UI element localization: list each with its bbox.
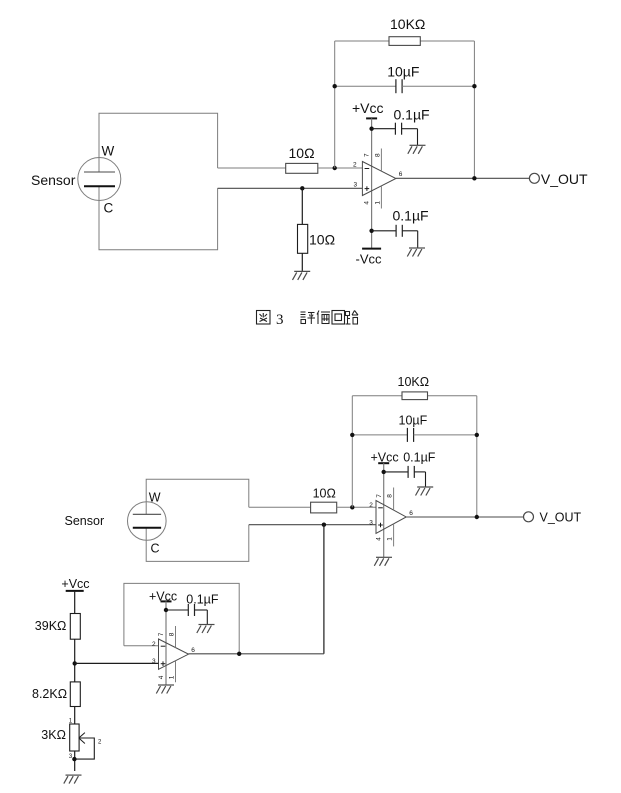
svg-text:1: 1 bbox=[387, 537, 394, 541]
output wire U3 to bias riser bbox=[189, 653, 324, 655]
svg-text:8.2KΩ: 8.2KΩ bbox=[32, 687, 67, 701]
svg-text:2: 2 bbox=[152, 641, 156, 648]
feedback right vertical (bottom ckt) bbox=[476, 396, 478, 517]
wire C1 to right vertical bbox=[402, 85, 474, 87]
svg-text:7: 7 bbox=[376, 494, 383, 498]
capacitor C4 10µF bbox=[407, 428, 413, 442]
capacitor C5 0.1µF bbox=[408, 466, 414, 478]
op-amp U2 triangle bbox=[376, 501, 406, 534]
output wire U1 to V_OUT bbox=[396, 177, 529, 179]
ground below U2 bbox=[374, 557, 392, 566]
svg-text:W: W bbox=[149, 491, 161, 505]
resistor R1 10Ω (horizontal) bbox=[286, 163, 318, 173]
V+ rail through U2 to ground bbox=[383, 463, 385, 557]
junction C4 left bbox=[350, 433, 354, 437]
junction bias tap bbox=[73, 661, 77, 665]
svg-text:C: C bbox=[151, 541, 160, 555]
V_OUT terminal circle (top) bbox=[529, 173, 539, 183]
wire bias tap to U3 pin3 bbox=[75, 662, 159, 664]
potentiometer VR1 3KΩ body bbox=[70, 724, 79, 751]
+Vcc (top) supply bar bbox=[366, 117, 377, 119]
junction C1 left bbox=[333, 84, 337, 88]
junction pin3/R2 bbox=[300, 186, 304, 190]
capacitor C3 0.1µF bbox=[396, 225, 402, 237]
junction pin3/bias riser bbox=[322, 523, 326, 527]
svg-text:39KΩ: 39KΩ bbox=[35, 619, 67, 633]
feedback top wire bbox=[335, 40, 475, 42]
+Vcc bar (bias chain) supply bar bbox=[66, 590, 84, 592]
sensor package box (bottom circuit) bbox=[146, 479, 249, 514]
svg-text:4: 4 bbox=[363, 201, 370, 205]
sensor W plate (bottom) bbox=[133, 513, 161, 515]
V+ rail through op-amp U1 to -Vcc bbox=[371, 118, 373, 248]
svg-text:10Ω: 10Ω bbox=[289, 145, 315, 161]
caption 評 bbox=[301, 312, 316, 324]
wire C5 down bbox=[425, 472, 427, 487]
wire C4 right bbox=[414, 434, 477, 436]
svg-text:10Ω: 10Ω bbox=[309, 232, 335, 248]
capacitor C1 10µF bbox=[396, 79, 402, 93]
wire C6 right bbox=[195, 609, 208, 611]
capacitor C2 0.1µF bbox=[395, 123, 401, 135]
output wire U2 to V_OUT bbox=[406, 516, 523, 518]
svg-text:4: 4 bbox=[158, 675, 165, 679]
svg-text:3: 3 bbox=[354, 181, 358, 188]
U2 plus symbol bbox=[378, 523, 383, 528]
svg-text:Sensor: Sensor bbox=[31, 172, 76, 188]
svg-text:W: W bbox=[102, 143, 115, 158]
svg-text:2: 2 bbox=[98, 739, 102, 745]
svg-text:+Vcc: +Vcc bbox=[61, 577, 89, 591]
svg-text:2: 2 bbox=[353, 161, 357, 168]
svg-text:3: 3 bbox=[369, 520, 373, 527]
svg-text:10µF: 10µF bbox=[387, 64, 419, 80]
caption 路 bbox=[346, 311, 359, 325]
wire feedback to U3 pin2 bbox=[124, 645, 159, 647]
junction -Vcc/C3 bbox=[369, 229, 373, 233]
feedback right vertical bbox=[473, 41, 475, 178]
junction C1 right bbox=[472, 84, 476, 88]
wire to C3 0.1µF bbox=[372, 230, 396, 232]
bias riser wire down to U3 output bbox=[323, 525, 325, 654]
svg-text:10KΩ: 10KΩ bbox=[390, 16, 425, 32]
svg-text:10µF: 10µF bbox=[399, 414, 428, 428]
wire C5 right bbox=[414, 471, 425, 473]
wire R2 to ground bbox=[301, 253, 303, 271]
U3 pin8 stub bbox=[175, 626, 177, 648]
svg-text:0.1µF: 0.1µF bbox=[186, 593, 219, 607]
svg-text:0.1µF: 0.1µF bbox=[394, 107, 430, 123]
U2 pin8 stub bbox=[393, 488, 395, 511]
resistor R5 10KΩ (feedback) bbox=[402, 392, 428, 400]
sensor C plate (bottom) bbox=[133, 527, 161, 529]
junction U3 output/feedback bbox=[237, 652, 241, 656]
wire to C5 0.1µF bbox=[384, 471, 408, 473]
sensor element circle (bottom) bbox=[128, 502, 167, 541]
wire box to op-amp pin3 bbox=[218, 187, 363, 189]
svg-text:7: 7 bbox=[158, 632, 165, 636]
svg-text:4: 4 bbox=[376, 537, 383, 541]
svg-text:7: 7 bbox=[364, 153, 371, 157]
VR1 wiper wire loop bbox=[74, 738, 94, 759]
U1 pin8 stub bbox=[380, 149, 382, 172]
svg-text:0.1µF: 0.1µF bbox=[403, 451, 436, 465]
svg-text:6: 6 bbox=[409, 510, 413, 517]
wire junction down to R2 bbox=[301, 188, 303, 224]
U3 minus symbol bbox=[161, 645, 166, 647]
sensor package box (top circuit) bbox=[99, 113, 218, 172]
V_OUT terminal circle (bottom) bbox=[524, 512, 534, 522]
caption 図 bbox=[257, 311, 271, 325]
wire to C2 0.1µF bbox=[372, 128, 396, 130]
junction Vcc/C2 bbox=[369, 127, 373, 131]
wire box to R1 bbox=[218, 167, 286, 169]
junction R1/feedback bbox=[333, 166, 337, 170]
wire C2 right bbox=[402, 128, 418, 130]
ground below VR1 bbox=[64, 775, 82, 784]
resistor R4 10Ω (horizontal) bbox=[311, 502, 337, 513]
wire box to R4 bbox=[249, 506, 311, 508]
wire to C1 10µF bbox=[335, 85, 396, 87]
ground for C6 bbox=[197, 625, 215, 634]
ground for C3 bbox=[407, 248, 425, 257]
sensor W plate (top) bbox=[84, 171, 115, 173]
op-amp U3 triangle bbox=[159, 639, 189, 669]
svg-text:3: 3 bbox=[152, 658, 156, 665]
wire to C4 10µF bbox=[352, 434, 407, 436]
resistor R6 39KΩ bbox=[70, 614, 80, 640]
wire box to op-amp U2 pin3 bbox=[249, 524, 376, 526]
U3 feedback loop wire bbox=[124, 583, 239, 653]
V+ rail through U3 to ground bbox=[165, 601, 167, 685]
junction VR1 wiper/bottom bbox=[72, 757, 76, 761]
wire C2 down to ground bbox=[417, 129, 419, 146]
svg-text:V_OUT: V_OUT bbox=[541, 171, 588, 187]
svg-text:1: 1 bbox=[374, 201, 381, 205]
wire Vcc to R6 bbox=[74, 591, 76, 614]
VR1 wiper arrow bbox=[79, 733, 85, 744]
svg-text:6: 6 bbox=[399, 171, 403, 178]
feedback left vertical bbox=[334, 41, 336, 168]
wire C3 down to ground bbox=[417, 231, 419, 248]
wire R7 to VR1 bbox=[74, 707, 76, 725]
svg-text:8: 8 bbox=[374, 153, 381, 157]
+Vcc bar (U3) supply bar bbox=[161, 600, 172, 602]
U3 plus symbol bbox=[161, 661, 166, 666]
+Vcc bar (U2) supply bar bbox=[378, 462, 389, 464]
wire R1 to op-amp pin2 bbox=[318, 167, 363, 169]
svg-text:8: 8 bbox=[387, 494, 394, 498]
svg-text:3KΩ: 3KΩ bbox=[41, 728, 66, 742]
U2 minus symbol bbox=[378, 507, 383, 509]
svg-text:3: 3 bbox=[276, 312, 284, 328]
capacitor C6 0.1µF bbox=[188, 604, 194, 616]
feedback top wire (bottom ckt) bbox=[352, 395, 477, 397]
feedback left vertical (bottom ckt) bbox=[351, 396, 353, 508]
svg-text:0.1µF: 0.1µF bbox=[393, 207, 429, 223]
svg-text:+Vcc: +Vcc bbox=[352, 100, 384, 116]
ground for C2 bbox=[408, 145, 426, 154]
resistor R2 10Ω (vertical) bbox=[298, 224, 308, 253]
caption 価 bbox=[317, 311, 330, 325]
U1 minus symbol bbox=[365, 168, 370, 170]
resistor R7 8.2KΩ bbox=[70, 682, 80, 707]
ground below U3 bbox=[156, 685, 174, 694]
ground below R2 bbox=[293, 271, 311, 280]
wire VR1 to ground bbox=[74, 751, 76, 771]
caption 回 bbox=[332, 311, 345, 325]
junction Vcc/C6 bbox=[164, 608, 168, 612]
svg-text:1: 1 bbox=[169, 675, 176, 679]
wire R4 to op-amp U2 pin2 bbox=[337, 506, 376, 508]
svg-text:2: 2 bbox=[369, 502, 373, 509]
junction C4 right bbox=[475, 433, 479, 437]
junction Vcc/C5 bbox=[382, 470, 386, 474]
-Vcc bar supply bar bbox=[362, 248, 381, 250]
svg-text:1: 1 bbox=[69, 718, 73, 724]
ground for C5 bbox=[416, 487, 434, 496]
wire to C6 0.1µF bbox=[166, 609, 188, 611]
junction R4/feedback bbox=[350, 505, 354, 509]
U2 pin1 stub bbox=[393, 524, 395, 547]
U3 pin1 stub bbox=[175, 661, 177, 683]
svg-text:10Ω: 10Ω bbox=[313, 487, 336, 501]
wire C6 down bbox=[206, 610, 208, 625]
U1 pin1 stub bbox=[380, 186, 382, 209]
sensor element circle (top) bbox=[78, 158, 121, 201]
wire R6 to R7 bbox=[74, 639, 76, 682]
svg-text:6: 6 bbox=[191, 647, 195, 654]
resistor R3 10KΩ (feedback) bbox=[389, 37, 420, 46]
wire C3 right bbox=[403, 230, 418, 232]
svg-text:V_OUT: V_OUT bbox=[540, 511, 582, 525]
svg-text:8: 8 bbox=[169, 632, 176, 636]
U1 plus symbol bbox=[365, 186, 370, 191]
sensor C plate (top) bbox=[84, 185, 115, 187]
svg-text:-Vcc: -Vcc bbox=[356, 252, 383, 267]
junction output/feedback (bottom) bbox=[475, 515, 479, 519]
junction output/feedback bbox=[472, 176, 476, 180]
svg-text:C: C bbox=[104, 201, 114, 216]
svg-text:Sensor: Sensor bbox=[65, 514, 105, 528]
op-amp U1 triangle bbox=[362, 162, 396, 196]
svg-text:10KΩ: 10KΩ bbox=[398, 375, 430, 389]
